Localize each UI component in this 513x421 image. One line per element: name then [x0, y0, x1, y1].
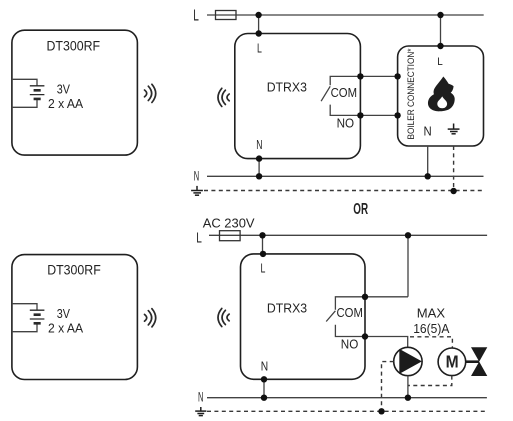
svg-text:L: L [257, 41, 262, 55]
svg-text:L: L [261, 262, 266, 276]
svg-text:N: N [261, 360, 268, 374]
svg-text:NO: NO [341, 337, 359, 351]
svg-text:DT300RF: DT300RF [47, 263, 101, 278]
svg-text:MAX: MAX [417, 306, 446, 321]
svg-text:L: L [196, 229, 202, 246]
svg-text:2 x AA: 2 x AA [48, 96, 83, 111]
svg-text:OR: OR [353, 201, 368, 218]
svg-text:DTRX3: DTRX3 [267, 80, 307, 95]
svg-text:AC 230V: AC 230V [203, 216, 255, 231]
svg-text:3V: 3V [57, 306, 70, 321]
svg-text:L: L [437, 56, 443, 68]
svg-text:COM: COM [331, 85, 357, 100]
svg-text:DT300RF: DT300RF [47, 38, 101, 53]
svg-text:2 x AA: 2 x AA [48, 321, 83, 336]
svg-text:N: N [256, 138, 262, 152]
svg-text:COM: COM [337, 305, 363, 320]
svg-text:L: L [193, 8, 199, 25]
svg-text:N: N [198, 390, 203, 405]
svg-text:M: M [446, 352, 459, 372]
svg-text:16(5)A: 16(5)A [413, 321, 449, 336]
svg-text:DTRX3: DTRX3 [267, 300, 307, 315]
svg-text:BOILER CONNECTION*: BOILER CONNECTION* [406, 48, 417, 139]
svg-text:NO: NO [337, 116, 355, 130]
svg-text:N: N [194, 169, 199, 184]
svg-text:N: N [424, 123, 432, 138]
svg-text:3V: 3V [57, 82, 70, 97]
